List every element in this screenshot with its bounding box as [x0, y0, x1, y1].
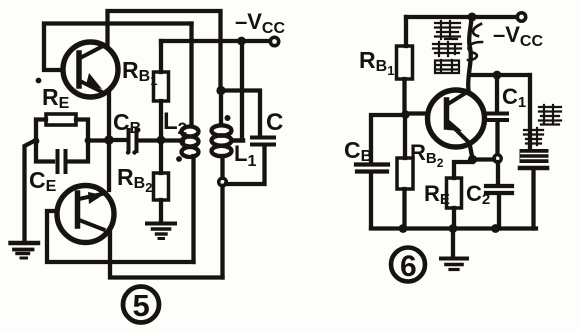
wire -Vcc to L1 tap — [233, 41, 243, 141]
label CB (right) — [344, 137, 372, 165]
wire shared emitter line — [107, 93, 111, 190]
node collector tap — [493, 71, 502, 80]
node RE on bottom rail — [449, 224, 458, 233]
-Vcc supply rail (right circuit) — [406, 15, 517, 19]
wire Q2 collector to bottom loop — [110, 230, 223, 278]
label -Vcc (left) — [235, 9, 285, 37]
svg-text:6: 6 — [400, 250, 417, 283]
node CB/RB2 on bottom rail — [399, 224, 408, 233]
ground under RB2 — [147, 224, 175, 239]
svg-text:5: 5 — [133, 288, 150, 323]
node emitter junction (right) — [468, 155, 477, 164]
node junction at L1 top — [216, 86, 225, 95]
node C2 on bottom rail — [491, 224, 500, 233]
label RB1 (left) — [122, 57, 157, 88]
transistor Q1 — [63, 42, 118, 97]
label CE (left) — [29, 167, 57, 195]
speck dots above RB2 — [126, 150, 137, 154]
wire Q2 base to L2 bottom — [47, 211, 194, 262]
wire Q1 base to L2 top (feedback) — [44, 24, 192, 71]
wire emitter to C1/C2 node — [473, 157, 495, 161]
wire base node to Q3 base — [406, 111, 429, 115]
node on -Vcc rail — [237, 37, 246, 46]
node base junction (right) — [401, 110, 410, 119]
annotation crystal text (scribble) — [524, 105, 561, 145]
crystal branch wire — [528, 75, 532, 148]
resistor RE (right circuit) — [447, 178, 462, 229]
resistor RB2 (right circuit) — [397, 118, 413, 228]
wire emitter elbow to RE — [454, 162, 472, 178]
resistor RB1 (left circuit) — [154, 41, 169, 140]
node collector on rail — [468, 13, 477, 22]
node RE/CE left — [33, 138, 40, 145]
node emitter junction — [104, 135, 114, 145]
crystal element — [520, 149, 549, 229]
wire Q3 collector riser — [468, 17, 471, 90]
label L2 — [163, 108, 187, 138]
wire L1 top to capacitor C top — [221, 91, 261, 137]
label RB2 (right) — [410, 140, 444, 170]
label -Vcc (right) — [493, 22, 543, 50]
capacitor C2 — [486, 162, 512, 229]
inductor L1 — [212, 91, 232, 179]
capacitor CB (left circuit) — [109, 130, 183, 151]
bottom rail (right circuit) — [371, 226, 536, 230]
capacitor CB (right circuit) — [356, 115, 403, 228]
annotation oscillator text (scribble) — [433, 21, 461, 73]
-Vcc supply rail (left circuit) — [161, 39, 270, 43]
node L1 bottom (open) — [219, 178, 227, 186]
label RE (left) — [42, 84, 70, 112]
stray dot left of RE — [36, 78, 42, 84]
terminal -Vcc (left circuit) — [270, 37, 278, 45]
phasing dot L1 — [225, 115, 231, 121]
transistor Q2 — [57, 186, 114, 243]
terminal -Vcc (right circuit) — [517, 13, 525, 21]
wire Q1 collector riser and outer top loop — [108, 11, 221, 87]
capacitor C1 — [488, 75, 507, 154]
resistor RB2 (left circuit) — [154, 140, 169, 222]
figure label (6) — [391, 248, 425, 282]
wire L1 bottom node down to bottom loop — [220, 186, 224, 278]
label C (left) — [266, 109, 283, 136]
capacitor C (left circuit) — [226, 138, 274, 185]
transistor Q3 — [428, 90, 485, 147]
node bias junction — [157, 136, 166, 145]
figure label (5) — [123, 287, 159, 323]
label RB2 (left) — [117, 164, 152, 195]
wire RE/CE left node to ground — [25, 141, 36, 243]
inductor L2 — [182, 24, 199, 263]
annotation pointer squiggle — [468, 24, 482, 60]
label C2 — [466, 181, 490, 208]
resistor RB1 (right circuit) — [397, 17, 413, 111]
capacitor CE (left circuit) — [36, 141, 88, 172]
svg-text:C: C — [266, 109, 283, 136]
wire collector tap to C1/crystal — [470, 73, 530, 77]
node C1/C2 junction — [494, 155, 501, 162]
resistor RE (left circuit) — [36, 114, 88, 141]
label RE (right) — [424, 181, 450, 208]
ground (right circuit) — [441, 229, 467, 270]
label C1 — [502, 84, 526, 111]
ground (left circuit) — [11, 243, 39, 258]
label CB (left) — [113, 109, 141, 137]
phasing dot L2 — [176, 156, 182, 162]
label RB1 (right) — [359, 47, 394, 78]
wire RE/CE right node to emitter node — [88, 138, 109, 142]
node RE/CE right — [85, 137, 92, 144]
wire Q3 emitter down — [470, 143, 473, 159]
label L1 — [234, 141, 256, 170]
